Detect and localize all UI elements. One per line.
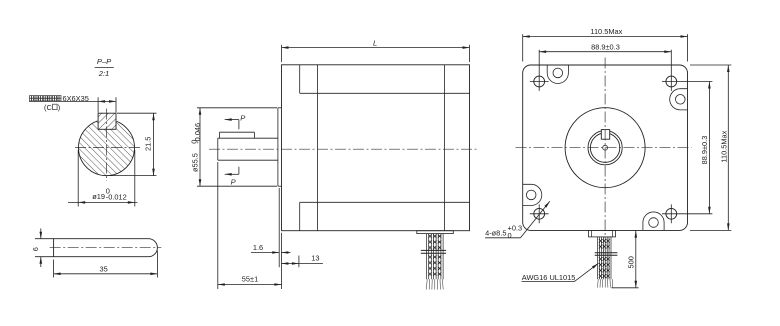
svg-text:110.5Max: 110.5Max — [590, 27, 622, 36]
dimension 88.9 right — [708, 82, 710, 214]
mounting hole bottom-left — [534, 208, 545, 219]
extension lines lower — [217, 162, 219, 289]
dimension 110.5Max right — [690, 64, 731, 66]
shaft centerline — [209, 148, 478, 150]
svg-text:88.9±0.3: 88.9±0.3 — [591, 43, 620, 52]
dimension 88.9 top — [539, 51, 671, 53]
mounting hole bottom-right — [666, 208, 677, 219]
svg-text:P–P: P–P — [97, 57, 112, 66]
svg-text:88.9±0.3: 88.9±0.3 — [700, 136, 709, 165]
dimension 13 — [281, 263, 299, 265]
front exit plate — [589, 230, 616, 237]
svg-text:1.6: 1.6 — [253, 243, 263, 252]
key outline — [54, 239, 158, 257]
shaft — [217, 138, 219, 160]
shaft section circle hatched — [79, 120, 135, 176]
tie bolt boss bottom-left — [523, 184, 542, 205]
tie bolt boss top-left — [547, 65, 568, 84]
tie bolt boss bottom-right — [643, 212, 664, 230]
svg-text:L: L — [373, 38, 377, 47]
svg-text:21.5: 21.5 — [143, 137, 152, 151]
dimension 21.5 — [117, 112, 157, 114]
rear endcap line — [444, 65, 446, 231]
center hole circle — [603, 145, 608, 150]
svg-text:13: 13 — [311, 254, 319, 263]
flange outline — [523, 65, 688, 230]
key centerline — [50, 247, 162, 249]
svg-text:55±1: 55±1 — [242, 274, 258, 283]
front centerlines — [516, 147, 692, 149]
dimension 6 — [35, 238, 54, 240]
pilot circle — [565, 108, 645, 188]
mounting hole top-right — [666, 76, 677, 87]
dimension 500 — [635, 230, 637, 287]
svg-text:6X6X35: 6X6X35 — [63, 94, 89, 103]
middle wire bundle — [426, 234, 428, 279]
key width dimension line — [29, 100, 116, 102]
svg-text:(C: (C — [44, 103, 52, 112]
section centerlines — [106, 109, 108, 182]
mounting hole top-left — [534, 76, 545, 87]
svg-text:0: 0 — [508, 231, 512, 240]
svg-text:6: 6 — [31, 247, 40, 251]
dimension 55+-1 — [218, 284, 282, 286]
key spec label 6X6X35 — [30, 96, 34, 101]
svg-text:500: 500 — [626, 256, 635, 268]
dimension 1.6 — [251, 252, 279, 254]
middle exit plate — [417, 231, 454, 234]
front wire bundle — [597, 237, 599, 279]
front endcap line — [317, 65, 319, 231]
front keyway — [601, 130, 609, 140]
tie bolt boss top-right — [670, 89, 688, 110]
dimension 35 — [53, 260, 55, 278]
svg-text:): ) — [58, 103, 60, 112]
svg-text:4-ø8.5: 4-ø8.5 — [485, 229, 506, 238]
svg-text:35: 35 — [100, 265, 108, 274]
section mark P upper — [225, 119, 239, 121]
svg-text:-0.012: -0.012 — [106, 193, 127, 202]
dimension 110.5Max top — [522, 34, 524, 61]
svg-text:ø55.5: ø55.5 — [190, 153, 199, 172]
dimension L — [281, 45, 283, 62]
key cross-section hatched — [98, 113, 116, 129]
svg-text:AWG16 UL1015: AWG16 UL1015 — [522, 273, 576, 282]
pilot boss — [277, 108, 279, 186]
svg-text:-0.046: -0.046 — [193, 123, 202, 144]
shaft circle — [590, 133, 619, 162]
dimension dia19 — [77, 150, 79, 207]
key on shaft — [220, 131, 255, 133]
shaft boss circle — [588, 131, 622, 165]
body corner lines — [299, 65, 301, 94]
svg-text:ø19: ø19 — [92, 192, 105, 201]
section mark P lower — [238, 167, 240, 175]
keyway mask — [98, 113, 117, 130]
dimension dia55.5 — [197, 107, 277, 109]
svg-text:2:1: 2:1 — [98, 69, 110, 78]
svg-text:110.5Max: 110.5Max — [719, 130, 728, 162]
motor body outline — [282, 65, 470, 231]
